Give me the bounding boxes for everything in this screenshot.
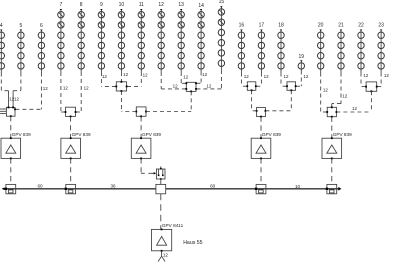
luminaire column 11 (pole 11 with lamp symbols) xyxy=(138,2,144,72)
junction box J9 (cols 20-21, feeds GPV5) xyxy=(326,106,337,117)
house substation GPV 8411 xyxy=(152,229,172,252)
cable bus box B3 to GPV 8411 xyxy=(160,194,162,230)
substation GPV 839 #2 xyxy=(61,132,91,159)
cable J6 to J8 xyxy=(252,90,257,111)
cable J4 to GPV3 xyxy=(140,116,142,138)
svg-text:12: 12 xyxy=(206,84,212,89)
svg-text:5: 5 xyxy=(20,23,23,29)
svg-text:12: 12 xyxy=(102,74,108,79)
cable from column 14 xyxy=(196,72,201,84)
cable J10 to J9 xyxy=(336,91,371,112)
arrow into connector K1 xyxy=(154,172,157,174)
svg-text:15: 15 xyxy=(219,0,225,5)
svg-text:GPV 839: GPV 839 xyxy=(262,132,281,137)
svg-text:10: 10 xyxy=(295,184,301,189)
junction box J5 (cols 12-15) xyxy=(185,82,197,92)
svg-text:12: 12 xyxy=(123,72,129,77)
drop wires from columns 4+5 into junction J1 top xyxy=(9,91,14,108)
luminaire column 16 (pole 16 with lamp symbols) xyxy=(238,22,244,72)
bus junction box B1 xyxy=(5,184,16,193)
svg-text:9: 9 xyxy=(100,2,103,8)
substation GPV 839 #1 xyxy=(1,132,31,159)
cable GPV3 to connector K1 xyxy=(141,158,154,173)
cable from column 6 xyxy=(15,73,41,110)
cable J1 to GPV1 xyxy=(10,116,12,138)
bus junction box B3 xyxy=(156,184,166,193)
cable from column 5 xyxy=(13,73,21,91)
junction box J10 (cols 22-23) xyxy=(365,82,377,92)
svg-text:21: 21 xyxy=(338,22,344,28)
cable from column 4 xyxy=(1,73,8,91)
cable J3 to J4 xyxy=(121,91,136,112)
luminaire column 20 (pole 20 with lamp symbols) xyxy=(318,22,324,72)
luminaire column 23 (pole 23 with lamp symbols) xyxy=(378,22,384,72)
cable J8 to GPV4 xyxy=(260,117,262,139)
bus start arrow (left) xyxy=(2,188,5,191)
junction box J4 (second level, feeds GPV3) xyxy=(135,107,147,117)
stub below GPV 8411 xyxy=(161,251,163,256)
cable from column 10 xyxy=(120,72,122,81)
cable from column 22 xyxy=(361,73,366,87)
cable from column 19 xyxy=(296,71,301,87)
luminaire column 22 (pole 22 with lamp symbols) xyxy=(358,22,364,72)
cable J7 to J8 xyxy=(265,90,291,111)
svg-text:12: 12 xyxy=(264,74,270,79)
svg-text:6: 6 xyxy=(40,23,43,29)
svg-text:14: 14 xyxy=(198,3,204,9)
cable from column 15 xyxy=(196,70,221,89)
luminaire column 6 (pole 6 with lamp symbols) xyxy=(38,23,44,73)
cable from column 9 xyxy=(101,72,116,86)
svg-text:GPV 839: GPV 839 xyxy=(12,132,31,137)
svg-text:36: 36 xyxy=(110,183,116,188)
luminaire column 21 (pole 21 with lamp symbols) xyxy=(338,22,344,72)
svg-text:12: 12 xyxy=(284,74,290,79)
svg-text:4: 4 xyxy=(0,23,3,29)
cable from column 18 xyxy=(281,73,287,87)
svg-text:12: 12 xyxy=(14,96,20,101)
cable GPV2 to bus box B2 xyxy=(70,158,72,184)
svg-text:12: 12 xyxy=(352,106,358,111)
luminaire column 13 (pole 13 with lamp symbols) xyxy=(178,2,184,72)
svg-text:12: 12 xyxy=(323,88,329,93)
luminaire column 8 (pole 8 with lamp symbols) xyxy=(78,2,84,72)
cable GPV4 to bus box B4 xyxy=(260,158,262,184)
main bus line xyxy=(3,188,339,190)
svg-text:12: 12 xyxy=(173,83,179,88)
cable from column 20 xyxy=(321,73,327,113)
connector box K1 xyxy=(156,166,165,179)
cable J5 to J4 xyxy=(146,91,191,111)
svg-text:Haus 55: Haus 55 xyxy=(183,240,202,246)
svg-text:7: 7 xyxy=(60,2,63,8)
bus junction box B4 xyxy=(255,184,266,193)
svg-text:12: 12 xyxy=(143,73,149,78)
svg-text:19: 19 xyxy=(299,54,305,60)
cable from column 7 xyxy=(61,72,65,112)
svg-text:GPV 839: GPV 839 xyxy=(333,132,352,137)
svg-text:12: 12 xyxy=(84,86,90,91)
svg-text:12: 12 xyxy=(43,86,49,91)
luminaire column 19 (pole 19 with lamp symbols) xyxy=(298,54,304,71)
svg-text:60: 60 xyxy=(210,184,216,189)
svg-text:12: 12 xyxy=(303,74,309,79)
cable from column 17 xyxy=(256,73,261,87)
svg-text:12: 12 xyxy=(202,72,208,77)
svg-text:GPV 839: GPV 839 xyxy=(72,132,91,137)
cable J9 to GPV5 xyxy=(331,117,333,139)
junction box J2 (cols 7-8) xyxy=(65,107,77,117)
svg-text:12: 12 xyxy=(158,2,164,8)
luminaire column 5 (pole 5 with lamp symbols) xyxy=(18,23,24,73)
bus end arrow (right) xyxy=(338,187,341,191)
svg-text:12: 12 xyxy=(363,73,369,78)
svg-text:GPV 8411: GPV 8411 xyxy=(162,223,184,228)
svg-text:10: 10 xyxy=(119,2,125,8)
svg-text:11: 11 xyxy=(139,2,144,8)
luminaire column 14 (pole 14 with lamp symbols) xyxy=(198,3,204,72)
cable from column 23 xyxy=(377,73,381,87)
svg-text:13: 13 xyxy=(178,2,184,8)
luminaire column 15 (pole 15 with lamp symbols) xyxy=(218,0,224,70)
junction box J6 (cols 16-17) xyxy=(246,82,256,91)
svg-text:12: 12 xyxy=(63,86,69,91)
svg-text:12: 12 xyxy=(183,75,189,80)
cable from column 11 xyxy=(127,72,141,86)
cable from column 13 xyxy=(181,72,186,83)
svg-text:GPV 839: GPV 839 xyxy=(142,132,161,137)
luminaire column 9 (pole 9 with lamp symbols) xyxy=(98,2,104,72)
luminaire column 17 (pole 17 with lamp symbols) xyxy=(258,22,264,72)
bus junction box B2 xyxy=(65,184,76,193)
svg-text:20: 20 xyxy=(318,22,324,28)
junction box J7 (cols 18-19) xyxy=(286,82,296,91)
junction box J1 (cols 4-6) xyxy=(6,107,16,118)
svg-text:8: 8 xyxy=(80,2,83,8)
luminaire column 4 (pole 4 with lamp symbols) xyxy=(0,23,5,73)
svg-text:22: 22 xyxy=(358,22,364,28)
cable from column 8 xyxy=(76,72,81,112)
junction box J8 (second level, feeds GPV4) xyxy=(256,107,267,117)
substation GPV 839 #3 xyxy=(131,132,161,159)
svg-text:16: 16 xyxy=(239,22,245,28)
svg-text:12: 12 xyxy=(342,94,348,99)
luminaire column 12 (pole 12 with lamp symbols) xyxy=(158,2,164,72)
svg-text:12: 12 xyxy=(163,253,169,258)
luminaire column 7 (pole 7 with lamp symbols) xyxy=(58,2,64,72)
open-end fork symbol xyxy=(158,256,165,261)
junction box J3 (cols 9-11) xyxy=(115,81,127,92)
svg-text:12: 12 xyxy=(244,74,250,79)
cable from column 16 xyxy=(241,73,247,87)
svg-text:12: 12 xyxy=(384,73,390,78)
cable from column 12 xyxy=(161,72,186,89)
svg-text:60: 60 xyxy=(37,184,43,189)
feeder cables from left edge into junction J1 xyxy=(0,109,6,114)
substation GPV 839 #4 xyxy=(251,132,281,159)
luminaire column 10 (pole 10 with lamp symbols) xyxy=(118,2,124,72)
cable GPV1 to bus box B1 xyxy=(10,158,12,184)
cable J2 to GPV2 xyxy=(70,116,72,138)
cable GPV5 to bus box B5 xyxy=(331,158,333,184)
link K1 to bus box B3 xyxy=(160,179,162,184)
svg-text:17: 17 xyxy=(259,22,265,28)
svg-text:18: 18 xyxy=(278,22,284,28)
svg-text:23: 23 xyxy=(378,22,384,28)
cable from column 21 xyxy=(332,73,341,108)
substation GPV 839 #5 xyxy=(322,132,352,159)
luminaire column 18 (pole 18 with lamp symbols) xyxy=(278,22,284,72)
bus junction box B5 xyxy=(326,184,337,193)
